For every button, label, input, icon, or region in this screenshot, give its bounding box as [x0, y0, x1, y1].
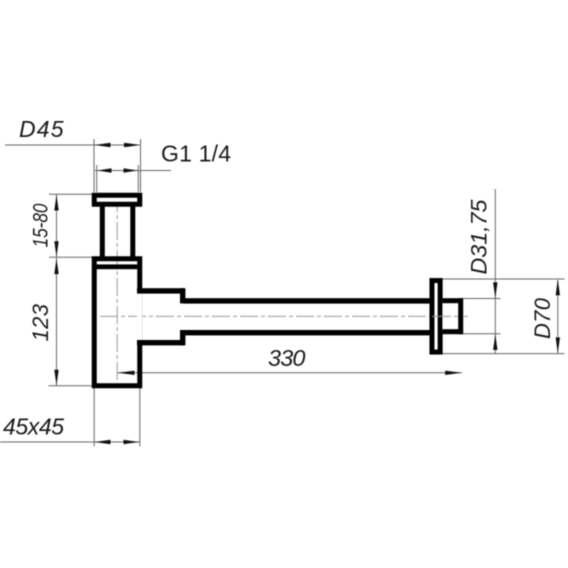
dimension D70 arrow down: [556, 337, 560, 353]
dimension D45 arrow right: [124, 143, 140, 148]
dimension 45x45 leader and dim line: [0, 441, 140, 443]
svg-text:15-80: 15-80: [30, 203, 53, 247]
dimension D70 extension line top: [443, 278, 565, 280]
stub top stroke: [442, 298, 463, 303]
dimension D70 arrow up: [556, 279, 560, 295]
outlet connector bottom stroke: [137, 340, 184, 345]
dimension D45 dim line: [5, 144, 140, 146]
dimension D31,75 extension line top: [463, 298, 501, 300]
inlet pipe right wall: [130, 204, 135, 257]
svg-text:123: 123: [28, 303, 53, 341]
outlet pipe bottom wall: [183, 330, 430, 335]
horizontal centerline of outlet pipe: [100, 315, 468, 317]
dimension 45x45 arrow left: [95, 440, 111, 444]
trap body interior white fill: [92, 257, 142, 389]
stub white fill: [442, 298, 463, 334]
dimension 45x45 arrow right: [124, 440, 140, 444]
svg-text:D31,75: D31,75: [467, 199, 492, 275]
dimension G1 1/4 arrow left: [97, 168, 111, 172]
svg-text:45x45: 45x45: [3, 413, 64, 439]
horizontal centerline segment through wall flange and stub: [432, 315, 458, 317]
dimension D31,75 arrow pointing up at stub bottom: [493, 334, 497, 350]
dimension G1 1/4 arrow right: [124, 168, 138, 172]
vertical centerline of inlet pipe and body: [116, 194, 118, 389]
dimension D45 arrow left: [94, 143, 110, 148]
dimension 15-80 extension line bottom (shared with 123): [49, 256, 93, 258]
trap body nut line: [97, 264, 138, 269]
trap body outline: [94, 259, 140, 386]
dimension 330 dim line: [118, 372, 463, 374]
outlet connector top stroke: [137, 288, 184, 293]
dimension 45x45 extension line left: [93, 388, 95, 447]
dimension D45 extension line left: [93, 139, 95, 192]
dimension 330 arrow left: [118, 371, 135, 375]
dimension D45 extension line right: [140, 139, 142, 192]
dimension 15-80 arrow up: [54, 195, 58, 211]
wall flange plate: [432, 281, 440, 353]
dimension G1 1/4 extension line right: [137, 165, 139, 192]
outlet pipe top wall: [183, 298, 430, 303]
body right wall opening for outlet: [137, 294, 142, 341]
svg-text:G1 1/4: G1 1/4: [161, 141, 231, 167]
dimension D31,75 extension line bottom: [463, 333, 501, 335]
stub right end stroke: [458, 298, 463, 334]
dimension D70 dim line: [557, 280, 559, 354]
dimension 123 extension line bottom: [49, 385, 94, 387]
stub bottom stroke: [442, 329, 463, 334]
dimension D31,75 dim line: [494, 189, 496, 354]
dimension 15-80 arrow down: [54, 241, 58, 257]
dimension 45x45 extension line right: [139, 388, 141, 447]
svg-text:D45: D45: [19, 116, 64, 142]
dimension D70 extension line bottom: [443, 353, 565, 355]
dimension 15-80 extension line top: [49, 193, 92, 195]
dimension 123 arrow up: [54, 258, 58, 274]
dimension D31,75 arrow pointing down at stub top: [493, 282, 497, 298]
svg-text:D70: D70: [530, 297, 555, 339]
dimension 123 dim line: [56, 258, 58, 386]
outlet connector right step top: [180, 288, 185, 303]
top flange of inlet: [94, 195, 140, 204]
dimension 330 arrow right: [445, 371, 462, 375]
outlet connector right step bottom: [180, 330, 185, 345]
dimension G1 1/4 extension line left: [96, 165, 98, 192]
dimension G1 1/4 dim line: [95, 170, 171, 172]
inlet pipe left wall: [100, 204, 105, 257]
dimension 123 arrow down: [54, 370, 58, 386]
svg-text:330: 330: [268, 345, 306, 371]
dimension 15-80 dim line: [56, 194, 58, 257]
